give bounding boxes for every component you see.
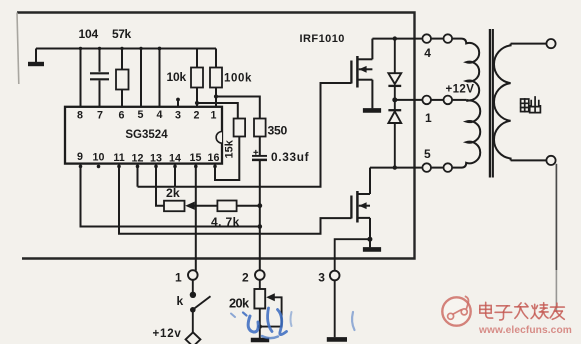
svg-text:5: 5 [138, 109, 144, 121]
svg-text:3: 3 [175, 109, 181, 121]
svg-text:104: 104 [79, 27, 99, 41]
svg-text:11: 11 [113, 152, 124, 164]
svg-text:SG3524: SG3524 [125, 129, 168, 141]
svg-text:2: 2 [242, 270, 249, 284]
svg-text:15k: 15k [224, 139, 236, 158]
svg-text:350: 350 [268, 124, 288, 138]
svg-text:+12v: +12v [153, 328, 182, 340]
svg-text:6: 6 [119, 109, 125, 121]
svg-text:57k: 57k [112, 27, 132, 41]
svg-text:15: 15 [190, 152, 202, 164]
svg-text:1: 1 [175, 270, 182, 284]
svg-text:10k: 10k [167, 70, 187, 84]
svg-text:2: 2 [194, 109, 200, 121]
svg-text:7: 7 [97, 109, 103, 121]
svg-text:100k: 100k [224, 73, 252, 85]
svg-text:4: 4 [157, 109, 163, 121]
svg-text:2k: 2k [166, 186, 180, 200]
svg-text:14: 14 [169, 152, 181, 164]
svg-text:4: 4 [424, 46, 431, 60]
svg-text:+12V: +12V [446, 84, 475, 96]
svg-text:www.elecfuns.com: www.elecfuns.com [478, 325, 572, 336]
svg-text:20k: 20k [229, 295, 250, 310]
svg-text:3: 3 [318, 271, 325, 285]
svg-text:1: 1 [211, 109, 217, 121]
svg-text:5: 5 [424, 147, 431, 161]
svg-text:8: 8 [77, 109, 83, 121]
svg-text:16: 16 [208, 152, 220, 164]
svg-text:9: 9 [77, 151, 83, 163]
svg-text:10: 10 [93, 151, 105, 163]
svg-text:4. 7k: 4. 7k [211, 215, 240, 229]
svg-text:k: k [177, 294, 184, 308]
svg-text:1: 1 [425, 111, 432, 125]
svg-text:0.33uf: 0.33uf [271, 150, 309, 164]
svg-text:IRF1010: IRF1010 [300, 33, 345, 45]
svg-text:13: 13 [150, 152, 162, 164]
svg-text:12: 12 [132, 152, 144, 164]
